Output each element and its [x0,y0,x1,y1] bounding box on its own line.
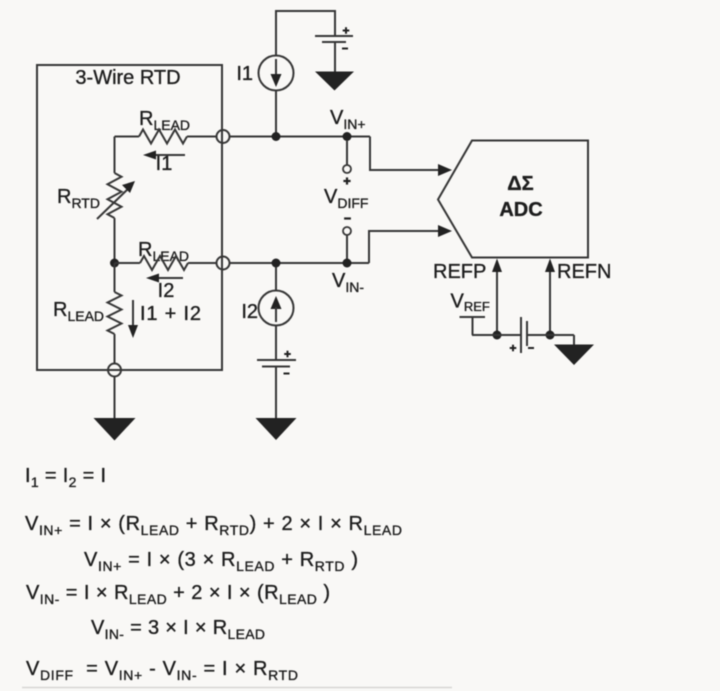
svg-text:I1: I1 [236,63,253,85]
svg-text:3-Wire RTD: 3-Wire RTD [75,67,180,89]
svg-text:I1 + I2: I1 + I2 [140,303,201,325]
svg-text:I1: I1 [156,153,173,175]
svg-text:REFP: REFP [433,261,486,283]
svg-text:I2: I2 [241,301,258,323]
svg-text:ΔΣ: ΔΣ [507,173,533,195]
svg-text:ADC: ADC [499,199,542,221]
svg-text:I2: I2 [158,280,175,302]
svg-text:REFN: REFN [557,261,611,283]
svg-text:VIN+ = I × (RLEAD + RRTD) + 2: VIN+ = I × (RLEAD + RRTD) + 2 × I × RLEA… [25,513,402,538]
